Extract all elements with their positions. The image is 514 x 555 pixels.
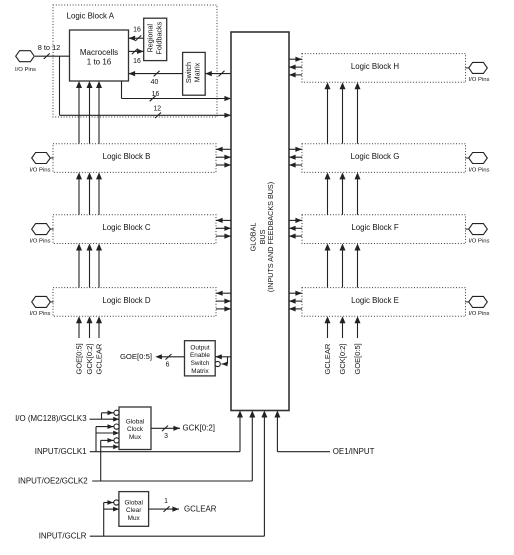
wire macrocells to regional foldbacks 16 bbox=[129, 50, 144, 52]
wire global bus to OESM input bbox=[215, 356, 231, 358]
svg-text:I/O Pins: I/O Pins bbox=[30, 311, 51, 317]
svg-text:Logic Block B: Logic Block B bbox=[103, 152, 151, 161]
svg-text:8 to 12: 8 to 12 bbox=[38, 43, 61, 52]
wire global signal riser right seg3 line2 bbox=[342, 250, 344, 288]
wire global signal riser right seg2 line2 bbox=[342, 178, 344, 214]
svg-text:I/O Pins: I/O Pins bbox=[469, 238, 490, 244]
wire global signal riser left seg3 line3 bbox=[98, 250, 100, 288]
svg-text:Logic Block D: Logic Block D bbox=[102, 296, 151, 305]
svg-text:Global: Global bbox=[126, 418, 144, 425]
svg-text:GCLEAR: GCLEAR bbox=[184, 505, 217, 514]
logic block E dashed outline bbox=[302, 288, 466, 317]
svg-text:Logic Block H: Logic Block H bbox=[351, 62, 400, 71]
svg-text:(INPUTS AND FEEDBACKS BUS): (INPUTS AND FEEDBACKS BUS) bbox=[266, 182, 275, 292]
wire branch 12 to global bus bbox=[59, 56, 61, 115]
svg-text:Global: Global bbox=[124, 499, 142, 506]
wire global signal riser right seg2 line3 bbox=[357, 178, 359, 214]
logic block H dashed outline bbox=[302, 54, 466, 83]
wire block B to global bus 1 bbox=[216, 156, 231, 158]
wire global bus to block F bbox=[289, 219, 302, 221]
wire global signal riser left seg2 line1 bbox=[78, 178, 80, 214]
wire I/O pins A to macrocells bbox=[35, 55, 70, 57]
clock mux input GCLK3 bbox=[102, 418, 120, 420]
logic block G dashed outline bbox=[302, 144, 466, 173]
wire block F to global bus 1 bbox=[289, 227, 302, 229]
wire block F to global bus 2 bbox=[289, 235, 302, 237]
svg-text:Logic Block E: Logic Block E bbox=[351, 296, 399, 305]
wire global signal riser right seg3 line1 bbox=[327, 250, 329, 288]
svg-text:Clear: Clear bbox=[126, 507, 142, 514]
wire regional foldbacks to macrocells 16 bbox=[129, 37, 144, 39]
svg-text:Foldbacks: Foldbacks bbox=[154, 21, 163, 54]
wire block C to global bus 2 bbox=[216, 235, 231, 237]
svg-text:OE1/INPUT: OE1/INPUT bbox=[333, 447, 375, 456]
wire global signal riser right seg2 line1 bbox=[327, 178, 329, 214]
I/O pins symbol C bbox=[32, 224, 51, 235]
svg-text:6: 6 bbox=[166, 362, 170, 369]
I/O pins symbol B bbox=[32, 153, 51, 164]
clear mux input riser GCLR bbox=[103, 503, 105, 537]
svg-text:Mux: Mux bbox=[128, 515, 141, 522]
wire global signal riser left seg3 line2 bbox=[89, 250, 91, 288]
wire global bus to switch matrix bbox=[205, 73, 231, 75]
I/O pins symbol E bbox=[469, 296, 488, 307]
logic block F dashed outline bbox=[302, 215, 466, 244]
svg-text:Regional: Regional bbox=[146, 24, 155, 53]
wire global bus to block B bbox=[216, 148, 231, 150]
wire global signal riser right seg4 line2 bbox=[342, 322, 344, 338]
wire global signal riser left seg4 line2 bbox=[89, 322, 91, 338]
wire INPUT/GCLK1 to global bus bbox=[239, 417, 241, 452]
svg-text:40: 40 bbox=[151, 79, 159, 86]
svg-text:GOE[0:5]: GOE[0:5] bbox=[120, 352, 152, 361]
wire INPUT/OE2/GCLK2 to global bus bbox=[251, 417, 253, 482]
wire block G to global bus 2 bbox=[289, 164, 302, 166]
svg-text:Switch: Switch bbox=[184, 62, 193, 83]
wire block D to global bus 2 bbox=[216, 308, 231, 310]
svg-text:16: 16 bbox=[133, 27, 141, 34]
svg-text:Logic Block C: Logic Block C bbox=[102, 223, 151, 232]
I/O pins symbol G bbox=[469, 153, 488, 164]
svg-text:Mux: Mux bbox=[129, 434, 142, 441]
clock mux inverted input OE2/GCLK2 bbox=[101, 439, 115, 441]
svg-text:Logic Block F: Logic Block F bbox=[351, 223, 399, 232]
svg-text:GLOBAL: GLOBAL bbox=[249, 223, 258, 252]
clock mux input OE2/GCLK2 bbox=[101, 446, 119, 448]
svg-text:I/O Pins: I/O Pins bbox=[469, 167, 490, 173]
svg-text:12: 12 bbox=[153, 105, 161, 112]
global clear mux box bbox=[119, 492, 149, 527]
wire global signal riser right seg4 line1 bbox=[327, 322, 329, 338]
svg-text:INPUT/OE2/GCLK2: INPUT/OE2/GCLK2 bbox=[18, 476, 88, 485]
wire global signal riser right seg1 line1 bbox=[327, 88, 329, 143]
wire global signal riser right seg1 line2 bbox=[342, 88, 344, 143]
svg-text:Logic Block G: Logic Block G bbox=[351, 152, 400, 161]
svg-text:I/O (MC128)/GCLK3: I/O (MC128)/GCLK3 bbox=[15, 414, 87, 423]
svg-text:I/O Pins: I/O Pins bbox=[30, 238, 51, 244]
wire block E to global bus 1 bbox=[289, 300, 302, 302]
wire macrocells 16 to global bus bbox=[121, 81, 123, 99]
logic block C dashed outline bbox=[53, 215, 216, 244]
clock mux inverted input GCLK3 bbox=[102, 412, 115, 414]
wire global signal riser left seg1 line3 bbox=[98, 87, 100, 144]
svg-text:GCK[0:2]: GCK[0:2] bbox=[183, 424, 215, 433]
svg-text:3: 3 bbox=[164, 433, 168, 440]
clock mux input riser GCLK3 bbox=[101, 413, 103, 419]
svg-text:I/O Pins: I/O Pins bbox=[30, 167, 51, 173]
svg-text:I/O Pins: I/O Pins bbox=[469, 77, 490, 83]
wire global signal riser left seg1 line2 bbox=[89, 87, 91, 144]
wire clock mux output GCK[0:2] 3 bbox=[151, 427, 180, 429]
svg-text:INPUT/GCLK1: INPUT/GCLK1 bbox=[35, 447, 87, 456]
macrocells 1 to 16 box bbox=[70, 30, 129, 81]
global bus box bbox=[231, 32, 289, 411]
clock mux input riser OE2/GCLK2 bbox=[100, 440, 102, 481]
wire global signal riser left seg4 line3 bbox=[98, 322, 100, 338]
wire global signal riser right seg4 line3 bbox=[357, 322, 359, 338]
svg-text:GOE[0:5]: GOE[0:5] bbox=[75, 343, 84, 374]
signal OE1/INPUT bbox=[277, 451, 330, 453]
svg-text:Matrix: Matrix bbox=[191, 368, 209, 375]
wire global signal riser right seg1 line3 bbox=[357, 88, 359, 143]
svg-text:GOE[0:5]: GOE[0:5] bbox=[353, 343, 362, 374]
svg-text:Enable: Enable bbox=[190, 352, 210, 359]
wire block B to global bus 2 bbox=[216, 164, 231, 166]
I/O pins symbol A bbox=[16, 51, 35, 62]
svg-text:Clock: Clock bbox=[127, 426, 144, 433]
svg-text:16: 16 bbox=[152, 91, 160, 98]
wire OE1/INPUT to global bus bbox=[276, 417, 278, 452]
switch matrix box bbox=[183, 52, 206, 95]
wire block H to global bus 1 bbox=[289, 66, 302, 68]
wire block G to global bus 1 bbox=[289, 156, 302, 158]
logic block D dashed outline bbox=[53, 288, 216, 317]
wire global bus to block C bbox=[216, 219, 231, 221]
clock mux inverted input GCLK1 bbox=[96, 426, 115, 428]
wire global signal riser left seg2 line2 bbox=[89, 178, 91, 214]
wire block C to global bus 1 bbox=[216, 227, 231, 229]
svg-text:Matrix: Matrix bbox=[193, 62, 202, 82]
logic block B dashed outline bbox=[53, 144, 216, 173]
svg-text:I/O Pins: I/O Pins bbox=[15, 67, 36, 73]
svg-text:Logic Block A: Logic Block A bbox=[67, 11, 115, 20]
wire global signal riser right seg3 line3 bbox=[357, 250, 359, 288]
svg-text:GCLEAR: GCLEAR bbox=[95, 343, 104, 374]
wire block E to global bus 2 bbox=[289, 308, 302, 310]
svg-text:GCK[0:2]: GCK[0:2] bbox=[85, 344, 94, 375]
svg-text:GCLEAR: GCLEAR bbox=[323, 343, 332, 374]
I/O pins symbol D bbox=[32, 296, 51, 307]
svg-text:Switch: Switch bbox=[191, 360, 210, 367]
I/O pins symbol F bbox=[469, 224, 488, 235]
svg-text:Macrocells: Macrocells bbox=[80, 48, 118, 57]
clear mux inverted input GCLR bbox=[104, 502, 115, 504]
svg-text:16: 16 bbox=[133, 58, 141, 65]
wire global bus to block D bbox=[216, 292, 231, 294]
svg-text:Output: Output bbox=[190, 344, 209, 351]
svg-text:INPUT/GCLR: INPUT/GCLR bbox=[39, 532, 87, 541]
wire block D to global bus 1 bbox=[216, 300, 231, 302]
svg-text:GCK[0:2]: GCK[0:2] bbox=[338, 344, 347, 375]
wire global signal riser left seg3 line1 bbox=[78, 250, 80, 288]
wire global bus to block H bbox=[289, 58, 302, 60]
svg-text:I/O Pins: I/O Pins bbox=[469, 311, 490, 317]
wire global signal riser left seg2 line3 bbox=[98, 178, 100, 214]
wire INPUT/GCLR to global bus bbox=[263, 417, 265, 537]
clear mux input GCLR bbox=[104, 508, 119, 510]
I/O pins symbol H bbox=[469, 62, 488, 73]
wire global bus to block E bbox=[289, 292, 302, 294]
wire clear mux output GCLEAR 1 bbox=[149, 508, 179, 510]
wire OESM output GOE[0:5] 6 bbox=[162, 356, 185, 358]
svg-text:1: 1 bbox=[164, 498, 168, 505]
svg-text:1 to 16: 1 to 16 bbox=[87, 58, 112, 67]
logic block A dashed outline bbox=[53, 5, 217, 117]
wire global bus to OESM inverted input bbox=[227, 357, 229, 364]
clock mux input GCLK1 bbox=[96, 432, 119, 434]
wire global signal riser left seg4 line1 bbox=[78, 322, 80, 338]
regional foldbacks box bbox=[144, 18, 167, 60]
wire global bus to block G bbox=[289, 148, 302, 150]
wire block H to global bus 2 bbox=[289, 74, 302, 76]
global clock mux box bbox=[119, 407, 151, 450]
clock mux input riser GCLK1 bbox=[95, 427, 97, 452]
wire global signal riser left seg1 line1 bbox=[78, 87, 80, 144]
wire switch matrix to macrocells 40 bbox=[129, 73, 183, 75]
output enable switch matrix box bbox=[185, 341, 216, 376]
